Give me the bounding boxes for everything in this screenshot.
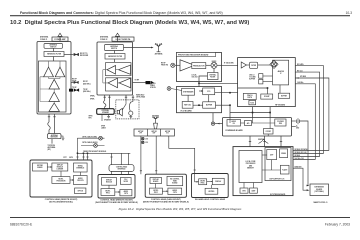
- squiggle wire to speaker box: [103, 101, 106, 109]
- svg-text:TX RF: TX RF: [135, 80, 140, 82]
- CH4 keypad box: [205, 188, 218, 194]
- wire: system board right bus lines: [293, 151, 329, 191]
- svg-text:GND: GND: [296, 128, 299, 130]
- svg-text:CONN J2: CONN J2: [100, 39, 107, 41]
- svg-text:Figure 10-2. Digital Spectra: Figure 10-2. Digital Spectra Plus Models…: [119, 207, 242, 211]
- antenna switch box: [44, 44, 63, 49]
- svg-text:SPI BUS (RX DATA): SPI BUS (RX DATA): [295, 148, 308, 151]
- svg-text:SWITCH: SWITCH: [111, 48, 117, 50]
- final amp stage A5 (points up): [49, 103, 59, 111]
- svg-text:MEMORY: MEMORY: [247, 168, 254, 170]
- svg-text:BUFFER: BUFFER: [281, 95, 287, 97]
- wire connector to VCO board: [171, 89, 182, 91]
- svg-text:SPKR+: SPKR+: [90, 96, 95, 98]
- microphone in dashed box: [129, 102, 133, 116]
- wire mixer to board edge: [217, 64, 222, 66]
- svg-text:16.8 MHz CLK: 16.8 MHz CLK: [295, 158, 304, 160]
- svg-text:SYNTHESIZER: SYNTHESIZER: [183, 91, 194, 93]
- svg-text:(800 MHz): (800 MHz): [83, 83, 91, 85]
- SRAM box: [280, 149, 288, 158]
- front end receiver board outline: [177, 53, 222, 82]
- connector pair TX RF: [74, 89, 79, 91]
- footer rule: [10, 216, 350, 219]
- wires: block2 drops into handheld CH dashed box: [125, 95, 134, 100]
- svg-text:COMMAND BOARD: COMMAND BOARD: [225, 129, 243, 132]
- node on ref line: [198, 104, 200, 106]
- interface rounded box: [109, 165, 134, 172]
- MARKER_DIAGRAM: [30, 33, 329, 204]
- command board outline: [223, 118, 292, 137]
- svg-text:16.8 MHz: 16.8 MHz: [297, 82, 304, 84]
- svg-text:BUFFER: BUFFER: [206, 105, 213, 107]
- wire: crystal filter to injection node: [199, 76, 208, 105]
- svg-text:ANTENNA: ANTENNA: [155, 53, 164, 56]
- final amp stage A3 (points up): [49, 79, 59, 89]
- IF filter box: [250, 62, 258, 68]
- CH1 audio box: [74, 176, 88, 185]
- feed wire inside cage: [40, 61, 60, 102]
- cable connector 1: [99, 136, 103, 140]
- svg-text:CKTS: CKTS: [173, 192, 177, 194]
- svg-text:MODULE: MODULE: [57, 167, 63, 169]
- svg-text:NETWORK: NETWORK: [51, 137, 58, 139]
- wire amp-filter-mixer: [246, 64, 270, 66]
- svg-text:SPI BUS: SPI BUS: [295, 155, 301, 157]
- cage interconnect wires: [103, 70, 119, 83]
- wire preselector to mixer: [206, 64, 211, 66]
- svg-text:(800 MHz): (800 MHz): [83, 91, 91, 93]
- wires inside command board: [230, 118, 275, 136]
- wire cable 1: [81, 137, 105, 139]
- svg-text:J101: J101: [145, 142, 148, 144]
- battery feed symbol: [297, 118, 300, 124]
- svg-text:PRESELECTOR: PRESELECTOR: [193, 65, 205, 67]
- block2 name plate: [112, 37, 134, 41]
- wire switch-filter: [114, 51, 116, 54]
- final amp stage A4 (points up): [49, 92, 59, 102]
- svg-text:RX RF TO: RX RF TO: [80, 53, 88, 55]
- wire: TX RF out of block2: [133, 82, 146, 84]
- harmonic filter box: [44, 52, 64, 57]
- CH1 arrows: [50, 166, 52, 167]
- svg-text:CIRCUITS: CIRCUITS: [77, 180, 84, 182]
- ADC box: [261, 94, 273, 99]
- filter box: [245, 121, 252, 126]
- nodes on remote bus: [77, 153, 79, 155]
- svg-text:PROCESSOR: PROCESSOR: [57, 181, 66, 183]
- wire: antenna into PA1: [59, 36, 61, 43]
- wire: connector to amp: [175, 64, 180, 66]
- wire amp to preselector: [192, 64, 195, 66]
- ground under microphone: [129, 115, 132, 118]
- svg-text:F 1200: F 1200: [150, 85, 155, 87]
- junction interconnect box (3 cells): [134, 129, 174, 136]
- speaker icon in dashed box: [117, 108, 122, 116]
- CH2 arrow: [118, 191, 120, 192]
- VCO input connector: [167, 87, 171, 91]
- CH1 keypad box: [33, 163, 48, 171]
- CH2 audio box: [120, 190, 132, 196]
- block2 antenna switch: [105, 45, 124, 51]
- svg-text:CNTRL CABLE (DATA): CNTRL CABLE (DATA): [82, 135, 97, 138]
- CH4 internal wires: [195, 174, 213, 189]
- control head 4 outline: [192, 174, 229, 198]
- svg-text:SWITCH: SWITCH: [50, 46, 56, 48]
- svg-text:OPTION: OPTION: [78, 191, 83, 193]
- horizontal wire across RF board: [238, 85, 280, 94]
- svg-text:POWER AMP: POWER AMP: [54, 38, 66, 41]
- node: injection junction: [198, 83, 200, 85]
- svg-text:HAND-HELD: HAND-HELD: [136, 94, 144, 97]
- FLASH box: [280, 165, 289, 174]
- codec box: [264, 129, 274, 135]
- svg-text:IGNITION: IGNITION: [258, 139, 264, 141]
- block2 outer board: [97, 42, 133, 95]
- antenna feed trapezoid: [154, 123, 158, 129]
- external speaker box (thick border): [97, 109, 115, 115]
- svg-text:FILTER: FILTER: [251, 65, 256, 67]
- node on VCO out: [229, 92, 231, 94]
- connector pair RX RF: [74, 81, 78, 83]
- svg-text:PROCESSOR: PROCESSOR: [246, 163, 257, 165]
- svg-text:J100: J100: [145, 139, 148, 141]
- bus wire CS (input arrow): [295, 78, 329, 151]
- wire below speaker box: [101, 114, 103, 121]
- ground at antenna filter: [61, 136, 64, 140]
- bus wire CLK: [295, 72, 319, 156]
- svg-text:VCO BOARD: VCO BOARD: [180, 109, 192, 112]
- CH3 internal wires: [156, 184, 168, 192]
- mixer: [211, 62, 217, 68]
- wires to option boxes: [244, 183, 253, 189]
- svg-text:10-3: 10-3: [346, 11, 353, 15]
- bus wire RX DATA: [295, 66, 323, 154]
- svg-text:MODE: MODE: [124, 181, 128, 183]
- CH3 audio box: [168, 188, 182, 194]
- svg-text:TX RF: TX RF: [72, 87, 77, 89]
- svg-text:FRONT END RECEIVER BOARD: FRONT END RECEIVER BOARD: [178, 54, 209, 57]
- wire cable 2: [81, 145, 105, 147]
- antenna connector J1 above PA1: [58, 33, 63, 36]
- host processor box: [239, 151, 262, 183]
- svg-text:DSP SUPPORT IC'S: DSP SUPPORT IC'S: [270, 179, 285, 181]
- svg-text:VHF: VHF: [139, 133, 142, 135]
- wire stage couplers: [49, 77, 61, 103]
- CH3 vol box: [167, 176, 183, 185]
- wire: command board right exits: [292, 121, 296, 127]
- PA1 outer board: [37, 42, 71, 115]
- svg-text:SPEAKER: SPEAKER: [104, 118, 111, 121]
- amp B4 (bottom-right, points left): [119, 78, 130, 88]
- block2 amplifier cage (two rows): [106, 63, 132, 76]
- wire: buffer out drop toward command board: [229, 105, 231, 117]
- svg-text:MODULE: MODULE: [106, 181, 112, 183]
- wire: RX RF line out of PA1: [71, 81, 74, 83]
- ABACUS IC box: [273, 60, 289, 85]
- RF amp: [180, 60, 195, 71]
- wires: RF board bottom drops to command board: [230, 107, 270, 118]
- CH3 micro box: [150, 188, 163, 194]
- block2 harmonic filter: [105, 54, 125, 60]
- svg-text:RX RF: RX RF: [161, 63, 166, 65]
- IF amp: [241, 62, 246, 68]
- system board outline: [233, 147, 293, 196]
- front end board title strip: [177, 53, 216, 57]
- wires: drops to control head 2 / interface: [112, 153, 129, 174]
- DSP support subsystem box: [265, 148, 291, 181]
- option connector box 1: [240, 188, 248, 193]
- wires: command board bottom drops to system board: [249, 136, 282, 151]
- svg-text:DSP: DSP: [270, 154, 273, 156]
- amp B1 (top-left, points left): [107, 66, 116, 75]
- svg-text:MICRO-: MICRO-: [58, 179, 64, 181]
- svg-text:TO/FROM: TO/FROM: [48, 145, 56, 147]
- control head 3 outline: [145, 174, 186, 197]
- wire: IF out of front end to RF board: [222, 64, 238, 66]
- svg-text:SYSTEM BOARD: SYSTEM BOARD: [270, 193, 286, 196]
- coax squiggle to antenna filter: [48, 122, 51, 134]
- svg-text:MICRO-: MICRO-: [153, 190, 159, 192]
- svg-text:HIGH POWER PA: HIGH POWER PA: [116, 38, 131, 41]
- svg-text:CKTS: CKTS: [124, 193, 128, 195]
- pendulum box: [243, 93, 256, 99]
- driver amp stage A2 (points up): [55, 67, 65, 77]
- wire: bus to expansion: [307, 185, 309, 187]
- CH1 option box: [75, 188, 86, 194]
- svg-text:W9 HAND-HELD CONTROL HEAD: W9 HAND-HELD CONTROL HEAD: [195, 198, 226, 201]
- TCXO box: [249, 100, 256, 104]
- CH1 micro box: [52, 177, 70, 184]
- svg-text:SPI BUS (RX CLK): SPI BUS (RX CLK): [295, 152, 308, 154]
- svg-text:DATA BUS: DATA BUS: [295, 166, 302, 169]
- wire battery to bus: [300, 121, 309, 186]
- CH1 display box: [52, 163, 68, 171]
- hand-held control head dashed box: [116, 100, 139, 119]
- svg-text:CONN J1: CONN J1: [40, 39, 47, 41]
- svg-text:MICRO-: MICRO-: [105, 190, 111, 192]
- svg-text:SPKR−: SPKR−: [90, 98, 95, 100]
- svg-text:(W3 PLUS/W4/W9 MODEL): (W3 PLUS/W4/W9 MODEL): [49, 200, 73, 203]
- CH3 display box: [150, 178, 162, 184]
- PA amplifier cage: [39, 61, 67, 112]
- VCO board outline: [177, 87, 222, 113]
- svg-text:J7/P7: J7/P7: [63, 157, 67, 159]
- option connector box 2: [250, 188, 258, 193]
- control head 2 outline: [98, 175, 135, 199]
- svg-text:& DRIVER: & DRIVER: [56, 169, 63, 171]
- second mixer (on ABACUS corner): [270, 60, 278, 68]
- wire: block2 to antenna glyph: [124, 47, 153, 49]
- svg-text:TX RF: TX RF: [83, 89, 88, 91]
- svg-text:RX DATA: RX DATA: [297, 63, 304, 66]
- arrow into RF board: [296, 77, 298, 79]
- svg-text:J8/P8: J8/P8: [69, 157, 73, 159]
- bus wire SPI: [295, 84, 315, 160]
- svg-text:RX RF: RX RF: [72, 79, 77, 81]
- CH1 interface box: [74, 163, 88, 172]
- wire filter to cage: [53, 57, 55, 64]
- CH2 micro box: [101, 189, 115, 196]
- wires: block2 bottom drops (speaker pair): [104, 95, 111, 109]
- svg-text:PROC: PROC: [106, 192, 110, 194]
- svg-text:PROC: PROC: [201, 182, 205, 184]
- header rule: [10, 14, 350, 17]
- svg-text:RF BOARD: RF BOARD: [275, 104, 286, 107]
- svg-text:10.2 Digital Spectra Plus Fun: 10.2 Digital Spectra Plus Functional Blo…: [10, 20, 249, 26]
- amp B3 (bottom-left, points left): [108, 78, 118, 88]
- svg-text:RX CLK: RX CLK: [297, 70, 304, 72]
- ref osc box: [182, 102, 193, 109]
- svg-text:SYN EN: SYN EN: [150, 87, 156, 89]
- svg-text:Functional Block Diagrams and: Functional Block Diagrams and Connectors…: [20, 11, 223, 15]
- svg-text:W3 CONTROL: W3 CONTROL: [170, 178, 179, 180]
- wire mixer down to crystal filter: [213, 68, 215, 72]
- svg-text:(W4 PUSHBUTTON AND W4 ROTARY M: (W4 PUSHBUTTON AND W4 ROTARY MODELS): [95, 201, 138, 204]
- wires inside system board: [262, 155, 280, 170]
- LO box 1: [259, 74, 263, 79]
- fuse / ignition symbol: [259, 139, 269, 143]
- svg-text:(W5/W7 PUSHBUTTON AND W9 ROTAR: (W5/W7 PUSHBUTTON AND W9 ROTARY MODELS): [143, 200, 189, 203]
- svg-text:OSC INJ: OSC INJ: [192, 77, 198, 79]
- buffer out box: [278, 93, 289, 98]
- wire below antenna filter: [51, 139, 53, 144]
- wire into block2: [117, 36, 119, 44]
- TX coax block (black) on block2: [146, 81, 151, 84]
- wires inside dashed box: [122, 100, 133, 110]
- PA1 name plate: [52, 37, 68, 41]
- wire: VCO board bottom drop: [212, 113, 214, 124]
- VCO box: [203, 88, 215, 95]
- svg-text:February 7, 2003: February 7, 2003: [325, 223, 350, 227]
- synthesizer box: [182, 88, 195, 95]
- arrow end of antenna wire: [151, 47, 154, 49]
- svg-text:REF OSC: REF OSC: [184, 105, 192, 107]
- svg-text:RECEIVER: RECEIVER: [80, 55, 89, 57]
- RF board outline: [238, 58, 296, 107]
- wires: junction box drops: [110, 136, 195, 174]
- ground under speaker box: [107, 114, 110, 118]
- wire: RX out of PA1 right: [64, 54, 74, 56]
- svg-text:CODEC: CODEC: [265, 131, 271, 133]
- node on buffer out: [229, 104, 231, 106]
- svg-text:A+: A+: [296, 125, 298, 128]
- wire into command board: [215, 123, 223, 125]
- svg-text:SPKR: SPKR: [89, 116, 93, 118]
- wires LO boxes to ABACUS: [263, 76, 273, 82]
- wire: buffer out right: [216, 104, 231, 106]
- svg-text:800: 800: [166, 133, 168, 135]
- CH2 vol box: [120, 178, 131, 185]
- svg-text:SPKR: SPKR: [101, 125, 105, 127]
- svg-text:PROC: PROC: [154, 192, 158, 194]
- svg-text:(RF): (RF): [48, 149, 52, 151]
- node drops: [252, 112, 254, 114]
- node on RF board wire: [267, 87, 269, 89]
- CH4 display box: [212, 178, 224, 184]
- wire: injection to RF board: [199, 82, 238, 84]
- svg-text:SPI BUS: SPI BUS: [300, 76, 306, 78]
- cable connector 2: [94, 144, 98, 148]
- wire: VCO out right to RF board: [215, 92, 238, 94]
- connector stubs left of junction box: [142, 137, 145, 143]
- DSP box: [267, 150, 277, 160]
- TX RF coax block (black): [69, 89, 73, 92]
- arrow into command board: [217, 123, 219, 125]
- expansion board (optional): [310, 184, 329, 196]
- connector pair on RX line: [74, 53, 79, 55]
- svg-text:RTN: RTN: [89, 118, 92, 120]
- regulator box: [275, 119, 286, 126]
- antenna glyph: [155, 43, 162, 52]
- connector ticks after coax: [151, 81, 153, 83]
- svg-text:(UHF): (UHF): [72, 81, 77, 83]
- wires: drops into control head 1: [76, 153, 88, 160]
- svg-text:5V REG: 5V REG: [150, 83, 156, 85]
- connector on drop: [211, 122, 214, 125]
- svg-text:FILTER: FILTER: [210, 77, 216, 79]
- arrow into VCO: [201, 90, 203, 92]
- crystal filter box: [208, 73, 219, 80]
- wires: PA1 bottom drops: [48, 114, 56, 134]
- svg-text:REG: REG: [279, 123, 282, 125]
- svg-text:2ND LO: 2ND LO: [249, 74, 255, 76]
- CH2 display box: [102, 178, 117, 186]
- LO box 2: [259, 79, 263, 84]
- buffer box: [203, 102, 216, 108]
- wire antenna switch to harmonic filter: [53, 48, 55, 51]
- antenna glyph: [152, 117, 158, 124]
- arrows into expansion board: [307, 185, 310, 187]
- svg-text:IF 109.65 MHz: IF 109.65 MHz: [224, 62, 234, 64]
- svg-text:MAEPF-27651-O: MAEPF-27651-O: [314, 201, 328, 204]
- antenna connector above block 2: [115, 33, 120, 36]
- driver amp stage A1 (points up): [44, 67, 54, 77]
- wires inside VCO board: [188, 91, 209, 105]
- preselector box: [192, 63, 206, 69]
- svg-text:SYNTH: SYNTH: [247, 97, 252, 99]
- wire: cluster feeder down: [77, 138, 81, 153]
- CH4 arrows: [197, 181, 199, 183]
- wire filter2 down: [114, 59, 116, 62]
- header running title: [20, 11, 223, 15]
- CH1 internal wires: [47, 167, 80, 180]
- wire: remote-mount bus horizontal: [77, 152, 130, 154]
- svg-text:UHF: UHF: [153, 133, 156, 135]
- amp B2 (top-right, points left): [119, 65, 131, 74]
- CH4 micro box: [199, 179, 207, 185]
- svg-text:MIXER: MIXER: [212, 61, 216, 63]
- CH2 internal wires: [109, 185, 120, 192]
- CH3 arrow: [166, 191, 168, 192]
- antenna low pass filter box: [48, 134, 62, 139]
- svg-text:BUFFER: BUFFER: [249, 78, 255, 80]
- control head 1 outline: [30, 160, 92, 197]
- svg-text:RX RF: RX RF: [83, 81, 88, 83]
- audio PA box: [227, 120, 241, 127]
- svg-text:6881076C20-E: 6881076C20-E: [10, 223, 33, 227]
- RF input connector: [171, 63, 175, 67]
